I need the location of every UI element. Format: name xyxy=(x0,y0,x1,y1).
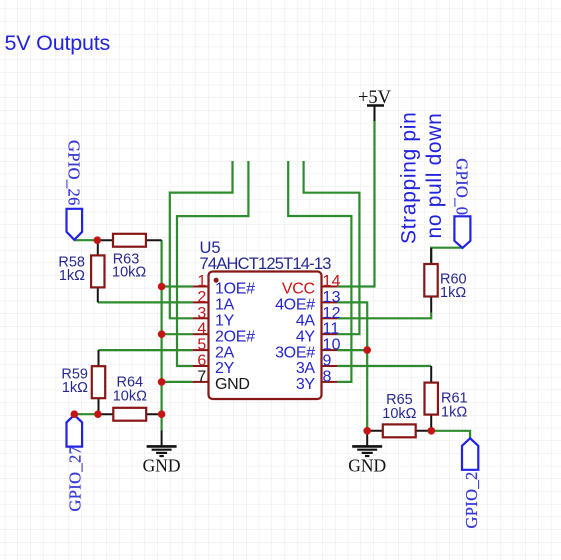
wire to pin 4 (2OE#) xyxy=(162,333,193,335)
wire R59 to pin 5 (2A) xyxy=(99,349,193,351)
wire staple C to pin 8 (3Y) xyxy=(288,161,351,382)
svg-text:5V Outputs: 5V Outputs xyxy=(5,31,111,55)
svg-text:10kΩ: 10kΩ xyxy=(382,406,416,422)
ground GND right xyxy=(348,431,386,476)
svg-text:1Y: 1Y xyxy=(215,313,235,330)
svg-text:14: 14 xyxy=(323,273,341,290)
svg-text:2OE#: 2OE# xyxy=(215,328,255,345)
wire pin 9 (3A) to R61 xyxy=(337,365,431,367)
svg-text:1: 1 xyxy=(197,273,206,290)
svg-text:GND: GND xyxy=(143,456,181,476)
wire pin 10 (3OE#) branch xyxy=(337,349,367,351)
wire pin 12 (4A) to R60 xyxy=(337,313,431,319)
resistor R63 xyxy=(97,234,161,281)
junction node R61/R65/GPIO_2 xyxy=(428,427,436,435)
svg-text:1kΩ: 1kΩ xyxy=(59,268,85,284)
pin 1 xyxy=(193,273,256,298)
label GPIO_2 xyxy=(462,438,481,528)
wire staple A to pin 3 (1Y) xyxy=(170,161,233,318)
resistor R58 xyxy=(58,240,104,302)
pin 7 xyxy=(193,368,250,393)
svg-text:12: 12 xyxy=(323,305,341,322)
label GPIO_26 xyxy=(65,140,84,240)
resistor R65 xyxy=(367,392,431,437)
pin 8 xyxy=(296,368,338,393)
junction node pin4 xyxy=(158,330,166,338)
wire GPIO_27 node xyxy=(74,413,98,415)
pin 9 xyxy=(296,353,338,378)
junction node GPIO_26/R58/R63 xyxy=(94,236,102,244)
wire to pin 1 (1OE#) xyxy=(162,285,193,287)
svg-text:3A: 3A xyxy=(296,360,316,377)
svg-text:10kΩ: 10kΩ xyxy=(112,265,146,281)
svg-text:4OE#: 4OE# xyxy=(275,297,315,314)
svg-text:3: 3 xyxy=(197,305,206,322)
svg-text:2Y: 2Y xyxy=(215,360,235,377)
pin 13 xyxy=(275,289,341,314)
pin 14 xyxy=(282,273,341,298)
label GPIO_0 xyxy=(453,158,472,248)
svg-text:2A: 2A xyxy=(215,344,235,361)
junction node GND/R65 xyxy=(363,427,371,435)
pin 5 xyxy=(193,337,235,362)
svg-text:GPIO_27: GPIO_27 xyxy=(65,446,84,512)
svg-text:4: 4 xyxy=(197,321,206,338)
svg-text:7: 7 xyxy=(197,368,206,385)
pin 11 xyxy=(296,321,340,346)
svg-text:8: 8 xyxy=(323,368,332,385)
svg-text:GPIO_2: GPIO_2 xyxy=(462,471,481,528)
svg-text:5: 5 xyxy=(197,337,206,354)
pin 12 xyxy=(296,305,341,330)
svg-text:10: 10 xyxy=(323,337,341,354)
svg-text:13: 13 xyxy=(323,289,341,306)
wire staple D to pin 11 (4Y) xyxy=(304,161,360,334)
svg-text:GND: GND xyxy=(215,376,250,393)
svg-text:3Y: 3Y xyxy=(296,376,316,393)
wire R61/R65 to GPIO_2 xyxy=(431,431,470,439)
svg-text:1kΩ: 1kΩ xyxy=(62,380,88,396)
svg-text:1A: 1A xyxy=(215,297,235,314)
pin 6 xyxy=(193,353,235,378)
junction node GPIO_27 xyxy=(71,410,79,418)
wire +5V to pin 14 VCC xyxy=(337,121,374,287)
wire staple B to pin 6 (2Y) xyxy=(177,161,248,366)
svg-text:6: 6 xyxy=(197,353,206,370)
svg-text:GPIO_26: GPIO_26 xyxy=(65,140,84,206)
svg-text:10kΩ: 10kΩ xyxy=(113,388,147,404)
junction node pin1 xyxy=(158,283,166,291)
junction node pin7 xyxy=(158,378,166,386)
svg-text:74AHCT125T14-13: 74AHCT125T14-13 xyxy=(200,255,332,273)
label GPIO_27 xyxy=(65,415,84,512)
junction node pin10 OE xyxy=(363,346,371,354)
junction node R64 right xyxy=(158,410,166,418)
svg-text:4A: 4A xyxy=(296,313,316,330)
svg-text:GPIO_0: GPIO_0 xyxy=(453,158,472,215)
junction node R59/R64 xyxy=(94,410,102,418)
wire pin 13 (4OE#) down to GND net xyxy=(337,302,367,430)
wire GPIO_26 node xyxy=(74,239,97,241)
node OE pull-down bus (left vertical) xyxy=(161,240,163,430)
svg-text:2: 2 xyxy=(197,289,206,306)
wire GPIO_0 to R60 xyxy=(431,248,462,264)
resistor R61 xyxy=(425,366,468,431)
resistor R64 xyxy=(98,374,162,420)
svg-text:3OE#: 3OE# xyxy=(275,344,315,361)
resistor R59 xyxy=(61,350,105,414)
resistor R60 xyxy=(424,248,466,313)
svg-text:9: 9 xyxy=(323,353,332,370)
wire R58 to pin 2 (1A) xyxy=(98,301,193,303)
power +5V xyxy=(358,88,392,121)
pin 2 xyxy=(193,289,235,314)
svg-text:VCC: VCC xyxy=(282,281,315,298)
svg-text:1kΩ: 1kΩ xyxy=(440,285,466,301)
wire to pin 7 (GND) xyxy=(162,381,193,383)
ground GND left xyxy=(143,431,181,476)
svg-text:4Y: 4Y xyxy=(296,328,316,345)
svg-text:1OE#: 1OE# xyxy=(215,281,255,298)
pin 10 xyxy=(275,337,341,362)
op IC U5 74AHCT125 xyxy=(200,239,332,399)
pin 3 xyxy=(193,305,235,330)
svg-text:11: 11 xyxy=(323,321,340,338)
svg-text:GND: GND xyxy=(348,456,386,476)
svg-text:1kΩ: 1kΩ xyxy=(441,404,467,420)
pin 4 xyxy=(193,321,256,346)
